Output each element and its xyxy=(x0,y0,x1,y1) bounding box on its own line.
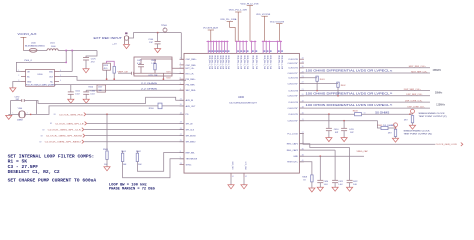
svg-text:IO: IO xyxy=(40,142,42,144)
svg-text:C540: C540 xyxy=(148,39,154,41)
svg-text:100 OHMS DIFFERENTIAL LVDS OR: 100 OHMS DIFFERENTIAL LVDS OR LVPECL xyxy=(306,104,391,107)
junction xyxy=(106,78,108,80)
svg-text:EXT_LF-: EXT_LF- xyxy=(186,73,195,75)
resistor R404 xyxy=(410,113,413,115)
ground xyxy=(241,185,247,189)
svg-text:PRI_REF+: PRI_REF+ xyxy=(186,79,197,81)
ground xyxy=(341,138,347,142)
junction xyxy=(395,127,397,129)
resistor R408 xyxy=(311,175,313,182)
junction xyxy=(157,32,159,33)
svg-text:CLKOUT4: CLKOUT4 xyxy=(288,102,298,104)
ground xyxy=(347,187,353,191)
wire CLOCK_GEN_SPI_LE xyxy=(87,122,184,124)
svg-text:10K: 10K xyxy=(104,164,108,166)
test point TP402 xyxy=(395,127,397,128)
svg-text:L500: L500 xyxy=(31,42,36,44)
svg-text:SPI_MOSI: SPI_MOSI xyxy=(186,136,196,138)
svg-text:VDD_PLL1_1V8: VDD_PLL1_1V8 xyxy=(213,55,215,69)
capacitor C411 xyxy=(343,121,345,128)
svg-text:TEST POINT OUTPUT (P): TEST POINT OUTPUT (P) xyxy=(419,116,447,118)
svg-text:24: 24 xyxy=(180,163,182,165)
svg-text:C551: C551 xyxy=(75,91,81,93)
capacitor C410 xyxy=(328,114,330,128)
wire VDD xyxy=(59,71,72,73)
svg-text:CLOCK_GEN_SPI_MISO: CLOCK_GEN_SPI_MISO xyxy=(45,142,82,144)
wire xyxy=(106,70,108,79)
svg-text:C575: C575 xyxy=(91,58,97,60)
pin CLKOUT0 xyxy=(299,58,304,60)
svg-text:IO: IO xyxy=(54,114,56,116)
svg-text:0.1U: 0.1U xyxy=(90,94,95,96)
svg-text:VDD_PLL1_1V8: VDD_PLL1_1V8 xyxy=(255,55,257,69)
svg-text:1.7M: 1.7M xyxy=(151,63,156,65)
junction dots on power bus xyxy=(208,41,209,42)
wire filter to EXT_LF+ xyxy=(155,59,184,68)
svg-text:MGT_REF_CLK-: MGT_REF_CLK- xyxy=(411,71,427,73)
svg-text:1000: 1000 xyxy=(51,46,56,48)
svg-text:CLKOUT3: CLKOUT3 xyxy=(288,91,298,93)
wire CLKOUT1 pair - xyxy=(299,72,430,74)
junction xyxy=(65,62,67,64)
junction xyxy=(328,113,330,115)
pin CLKOUT1 xyxy=(299,67,304,69)
wire TESTOUT+ xyxy=(299,162,312,175)
svg-text:GND_PAD: GND_PAD xyxy=(231,162,234,171)
pin CLKOUT1* xyxy=(299,72,304,74)
svg-text:VDD_PLL1_1V8: VDD_PLL1_1V8 xyxy=(277,55,279,69)
svg-text:VDD_PLL_1V8A: VDD_PLL_1V8A xyxy=(220,18,237,21)
wire CLOCK_GEN_SPI_MISO xyxy=(84,141,184,143)
wire loop filter bottom xyxy=(135,72,173,74)
svg-text:PD: PD xyxy=(186,114,189,116)
wire xyxy=(362,113,411,115)
svg-text:7: 7 xyxy=(180,83,181,85)
svg-text:VDD_PLL1_1V8: VDD_PLL1_1V8 xyxy=(211,55,213,69)
ground xyxy=(104,167,110,171)
svg-text:R472: R472 xyxy=(167,77,171,79)
pin SPI_MISO xyxy=(180,141,185,143)
svg-text:C3 - 27.5PF: C3 - 27.5PF xyxy=(8,166,39,170)
svg-text:VDD_VCO2V8: VDD_VCO2V8 xyxy=(270,22,285,24)
wire xyxy=(107,61,115,66)
capacitor C471 xyxy=(131,72,133,75)
svg-text:C422: C422 xyxy=(353,181,358,183)
svg-text:VDD_PLL1_1V8: VDD_PLL1_1V8 xyxy=(208,55,210,69)
svg-text:VDD_PLL1_1V8: VDD_PLL1_1V8 xyxy=(227,55,229,69)
svg-text:VDD_PLL1_1V8: VDD_PLL1_1V8 xyxy=(243,55,245,69)
wire power bus 4 xyxy=(262,40,282,42)
svg-text:CLOCK_GEN_SPI_LE: CLOCK_GEN_SPI_LE xyxy=(55,123,84,125)
svg-text:+-1V: +-1V xyxy=(112,43,117,45)
svg-text:1: 1 xyxy=(164,28,165,30)
wire VCC drop to OE rail xyxy=(65,51,67,63)
wire xyxy=(319,156,321,180)
svg-text:PRI_REF-: PRI_REF- xyxy=(186,85,196,87)
pin PRI_REF+ xyxy=(180,78,185,80)
wire xyxy=(48,106,159,115)
pin CLKOUT5* xyxy=(299,120,304,122)
pin AUX_OUT xyxy=(180,105,185,107)
pin REG_CAP2 xyxy=(299,149,304,151)
svg-text:DSP_SER_CLK+: DSP_SER_CLK+ xyxy=(404,89,422,91)
svg-text:10K: 10K xyxy=(123,164,127,166)
svg-text:IO: IO xyxy=(50,123,52,125)
resistor R513 (DNI box) xyxy=(103,63,111,70)
resistor R502 xyxy=(136,151,138,153)
wire power bus 2 xyxy=(235,40,248,42)
pin CLKOUT4* xyxy=(299,107,304,109)
svg-text:R514: R514 xyxy=(89,87,94,89)
svg-text:BLM18AG601SN1D: BLM18AG601SN1D xyxy=(25,44,46,47)
wire xyxy=(316,81,318,90)
wire CLOCK_GEN_SPI_CLK xyxy=(84,129,184,131)
svg-text:VCC3V3_AUX: VCC3V3_AUX xyxy=(203,27,219,30)
svg-text:50 OHMS: 50 OHMS xyxy=(375,113,390,115)
IC bottom pin GND_PAD xyxy=(230,173,232,178)
svg-text:CLOCK_GEN_PDn: CLOCK_GEN_PDn xyxy=(59,114,84,116)
svg-text:R502: R502 xyxy=(136,151,142,153)
wire xyxy=(85,90,87,92)
svg-text:TESTOUT+: TESTOUT+ xyxy=(287,162,299,164)
test point TP401 xyxy=(412,113,414,114)
inductor L501 xyxy=(47,49,58,51)
IC top power pins group1 xyxy=(207,41,209,53)
svg-text:2.2 OHMS: 2.2 OHMS xyxy=(141,83,158,85)
junction xyxy=(163,78,165,80)
wire xyxy=(86,51,97,58)
svg-text:VCC3V3_AUX: VCC3V3_AUX xyxy=(18,32,37,36)
svg-text:R401: R401 xyxy=(320,79,326,81)
svg-text:AUX_IN: AUX_IN xyxy=(186,99,194,102)
wire VCC drop to VDD xyxy=(71,51,73,72)
wire CLKOUT4 single-ended xyxy=(299,113,354,115)
capacitor C475 xyxy=(140,59,142,64)
ground xyxy=(83,69,89,73)
pin SPI_CLK xyxy=(180,129,185,131)
svg-text:OE: OE xyxy=(27,71,30,73)
svg-text:R513: R513 xyxy=(104,65,109,67)
svg-text:15P: 15P xyxy=(149,42,153,44)
svg-text:C410: C410 xyxy=(334,129,340,131)
pin CLKOUT4 xyxy=(299,101,304,103)
svg-text:REG_CAP2: REG_CAP2 xyxy=(287,149,299,152)
pin TESTOUT+ xyxy=(299,161,304,163)
svg-text:CLKOUT5: CLKOUT5 xyxy=(288,114,298,116)
resistor R516 xyxy=(158,103,162,109)
svg-text:TEST POINT OUTPUT (N): TEST POINT OUTPUT (N) xyxy=(404,134,432,136)
wire power bus 3 xyxy=(250,40,256,42)
svg-text:DSP_SER_CLK-: DSP_SER_CLK- xyxy=(406,94,422,96)
resistor R515 xyxy=(113,66,115,73)
wire power bus 1 xyxy=(207,40,229,42)
svg-text:EXT_LF+: EXT_LF+ xyxy=(186,68,196,70)
svg-text:6: 6 xyxy=(180,78,181,80)
wire CLKOUT2 via R401 xyxy=(299,77,317,79)
svg-text:R408: R408 xyxy=(302,176,307,178)
svg-text:SET CHARGE PUMP CURRENT TO 600: SET CHARGE PUMP CURRENT TO 600uA xyxy=(8,179,97,183)
svg-text:TP500: TP500 xyxy=(161,25,168,27)
svg-text:25MHZ: 25MHZ xyxy=(17,120,24,122)
wire 3V3 rail xyxy=(58,50,97,52)
svg-text:MGT_REF_CLK+: MGT_REF_CLK+ xyxy=(409,66,427,68)
ground xyxy=(155,49,161,53)
wire xyxy=(337,87,339,96)
svg-text:OSC_REF+: OSC_REF+ xyxy=(186,59,198,61)
ground xyxy=(392,138,398,142)
ground xyxy=(83,99,89,103)
svg-text:SEC_REF-: SEC_REF- xyxy=(186,90,197,92)
svg-text:CLOCK_GEN_SPI_MOSI: CLOCK_GEN_SPI_MOSI xyxy=(46,136,83,138)
svg-text:SPI_MISO: SPI_MISO xyxy=(186,142,196,144)
wire loop filter top xyxy=(141,58,155,60)
pin EXT_LF- xyxy=(180,73,185,75)
pin REG_CAP1 xyxy=(299,143,304,145)
wire xyxy=(70,85,72,92)
wire filter to EXT_LF- xyxy=(172,72,184,74)
capacitor C422 xyxy=(347,179,353,181)
ground xyxy=(409,125,415,129)
svg-text:PHASE MARGIN = 72 DEG: PHASE MARGIN = 72 DEG xyxy=(109,187,155,191)
svg-text:DSP_CORE_CLK-: DSP_CORE_CLK- xyxy=(408,106,425,108)
wire oscillator GND xyxy=(13,82,21,88)
svg-text:PLL_LOCK: PLL_LOCK xyxy=(287,134,298,136)
ground xyxy=(8,114,10,115)
svg-text:SPI_CLK: SPI_CLK xyxy=(186,129,195,131)
svg-text:R4: R4 xyxy=(390,71,392,73)
pin CLKOUT0* xyxy=(299,62,304,64)
IC top power pins group2 xyxy=(236,41,238,53)
pin PLL_LOCK xyxy=(299,133,304,135)
capacitor C420 xyxy=(317,179,323,181)
svg-text:CLOCK_GEN_SPI_CLK: CLOCK_GEN_SPI_CLK xyxy=(48,130,82,132)
resistor R402 xyxy=(337,82,339,87)
wire xyxy=(37,50,47,52)
svg-text:4: 4 xyxy=(180,67,181,69)
svg-text:OUT: OUT xyxy=(49,76,54,78)
wire R502 to REF_SEL xyxy=(137,153,184,172)
svg-text:42: 42 xyxy=(245,176,247,178)
wire CLKOUT4 pair - xyxy=(299,107,430,109)
loop filter DNI box xyxy=(134,57,172,76)
svg-text:C570: C570 xyxy=(15,96,21,98)
svg-text:1.0U: 1.0U xyxy=(338,184,343,186)
svg-text:FXO-HC736R-25.0MHZ (25MHz): FXO-HC736R-25.0MHZ (25MHz) xyxy=(26,85,56,87)
svg-text:CLKOUT4*: CLKOUT4* xyxy=(287,108,298,110)
IC bottom pin VCO_GND xyxy=(243,173,245,178)
svg-text:10P: 10P xyxy=(335,132,339,134)
wire CLOCK_GEN_SPI_MOSI xyxy=(85,135,184,137)
wire OE tie high xyxy=(16,62,66,71)
svg-text:VDD_PLL1_1V8: VDD_PLL1_1V8 xyxy=(229,10,248,12)
wire REG_CAP2 xyxy=(299,149,335,151)
svg-text:32: 32 xyxy=(302,58,304,60)
wire PLL_LOCK xyxy=(299,134,435,145)
svg-text:R4: R4 xyxy=(390,105,392,107)
wire ext ref xyxy=(129,33,182,38)
junction xyxy=(320,155,322,157)
wire CLKOUT4* single-ended xyxy=(299,121,381,128)
svg-text:4.7u: 4.7u xyxy=(137,63,141,65)
svg-text:R516: R516 xyxy=(149,108,155,110)
svg-text:R471: R471 xyxy=(167,72,171,74)
junction xyxy=(65,50,67,52)
svg-text:VDD_PLL1_1V8: VDD_PLL1_1V8 xyxy=(222,55,224,69)
pin OSC_REF- xyxy=(180,64,185,66)
svg-text:1K: 1K xyxy=(303,179,306,181)
resistor R406 xyxy=(394,129,396,136)
test point TP500 xyxy=(163,28,167,32)
svg-text:R501: R501 xyxy=(121,151,127,153)
pin REF_SEL xyxy=(180,152,185,154)
wire CLKOUT3 row2 + xyxy=(299,90,430,92)
svg-text:2: 2 xyxy=(27,113,28,115)
svg-text:EXT REF INPUT: EXT REF INPUT xyxy=(94,36,123,40)
svg-text:OSC_REF-: OSC_REF- xyxy=(186,65,197,67)
pin PD xyxy=(180,113,185,115)
wire xyxy=(388,127,396,129)
connector J500 xyxy=(125,32,127,34)
svg-text:VDD_VCO1V8: VDD_VCO1V8 xyxy=(256,14,271,16)
svg-text:2: 2 xyxy=(18,75,19,77)
resistor R501 xyxy=(122,151,124,153)
svg-text:CLKOUT3*: CLKOUT3* xyxy=(287,96,298,98)
svg-text:VCO_GND: VCO_GND xyxy=(244,162,246,171)
svg-text:125MHz: 125MHz xyxy=(436,104,445,106)
wire GND pin xyxy=(299,155,364,157)
pin OSC_REF+ xyxy=(180,58,185,60)
junction xyxy=(316,90,317,91)
svg-text:50MHz: 50MHz xyxy=(435,93,443,95)
capacitor C421 xyxy=(332,179,338,181)
wire CLKOUT4 pair + xyxy=(299,101,430,103)
svg-text:NC: NC xyxy=(27,76,30,78)
pin SYNC xyxy=(180,164,185,166)
svg-text:VDD_PLL1_1V8: VDD_PLL1_1V8 xyxy=(240,55,242,69)
svg-text:REF_SEL: REF_SEL xyxy=(186,152,196,154)
resistor R405 xyxy=(381,126,388,129)
svg-text:DESELECT C1, R2, C2: DESELECT C1, R2, C2 xyxy=(8,171,61,175)
resistor R403 xyxy=(355,113,362,116)
svg-text:100: 100 xyxy=(99,90,102,92)
wire xyxy=(334,150,336,180)
pin CLKOUT2 xyxy=(299,77,304,79)
svg-text:VDD: VDD xyxy=(49,71,54,73)
svg-text:0.1U: 0.1U xyxy=(75,94,80,96)
resistor R503 xyxy=(106,114,108,151)
svg-text:5: 5 xyxy=(180,72,181,74)
svg-text:DSP_CORE_CLK+: DSP_CORE_CLK+ xyxy=(405,100,423,102)
svg-text:C421: C421 xyxy=(338,181,343,183)
capacitor C551 xyxy=(68,91,74,93)
pin AUX_IN xyxy=(180,99,185,101)
ground xyxy=(123,45,129,49)
wire CLKOUT2* via R402 xyxy=(299,82,338,84)
svg-text:SET INTERNAL LOOP FILTER COMPS: SET INTERNAL LOOP FILTER COMPS: xyxy=(8,155,95,159)
svg-text:C471: C471 xyxy=(148,75,153,77)
svg-text:1.0U: 1.0U xyxy=(324,184,329,186)
pin CLKOUT3 xyxy=(299,90,304,92)
wire xyxy=(162,73,164,79)
wire CLKOUT1 pair + xyxy=(299,67,430,69)
ground xyxy=(68,99,74,103)
svg-text:49.9: 49.9 xyxy=(104,68,108,70)
svg-text:VDD_PLL1_1V8: VDD_PLL1_1V8 xyxy=(263,55,265,69)
svg-text:VDD_PLL1_1V8: VDD_PLL1_1V8 xyxy=(224,55,226,69)
svg-text:156MHz: 156MHz xyxy=(433,70,442,72)
oscillator U500 xyxy=(26,69,55,86)
junction xyxy=(55,84,184,86)
wire xyxy=(10,101,12,115)
svg-text:3: 3 xyxy=(180,63,181,65)
svg-text:GND: GND xyxy=(293,156,298,158)
IC U400 CDCE62005 body xyxy=(184,53,299,173)
wire AUX_OUT xyxy=(162,105,184,107)
svg-text:SPI_LE: SPI_LE xyxy=(186,123,194,125)
junction xyxy=(113,78,115,80)
pin CLKOUT5 xyxy=(299,113,304,115)
ground xyxy=(317,187,323,191)
svg-text:CLKOUT2: CLKOUT2 xyxy=(288,78,298,80)
svg-text:SINGLE ENDED CLOCK: SINGLE ENDED CLOCK xyxy=(404,131,431,133)
ground xyxy=(326,138,332,142)
svg-text:VDD_PLL1_1V8: VDD_PLL1_1V8 xyxy=(269,55,271,69)
svg-text:VDD_PLL1_1V8: VDD_PLL1_1V8 xyxy=(216,55,218,69)
resistor R401 xyxy=(316,76,318,81)
svg-text:U500: U500 xyxy=(38,74,44,76)
wire xyxy=(23,50,29,52)
svg-text:10P: 10P xyxy=(350,132,354,134)
wire CLOCK_GEN_PDn xyxy=(86,113,184,115)
svg-text:Y500: Y500 xyxy=(18,108,24,110)
svg-text:TESTMODE: TESTMODE xyxy=(186,159,198,161)
svg-text:NC: NC xyxy=(50,81,53,83)
wire R501 to TESTMODE xyxy=(123,159,184,178)
svg-text:R402: R402 xyxy=(341,85,347,87)
svg-text:CLKOUT1: CLKOUT1 xyxy=(288,68,298,70)
svg-text:49.9: 49.9 xyxy=(388,132,392,134)
svg-text:VDD_PLL1_1V8: VDD_PLL1_1V8 xyxy=(266,55,268,69)
svg-text:VDD_PLL1_1V8: VDD_PLL1_1V8 xyxy=(251,55,253,69)
pin GND xyxy=(299,155,304,157)
svg-text:41: 41 xyxy=(232,176,234,178)
svg-text:CLKOUT1*: CLKOUT1* xyxy=(287,73,298,75)
svg-text:GND: GND xyxy=(27,81,32,83)
svg-text:VDD_PLL1_1V8: VDD_PLL1_1V8 xyxy=(219,55,221,69)
capacitor C552 xyxy=(83,91,89,93)
svg-text:AUX_OUT: AUX_OUT xyxy=(186,105,197,108)
svg-text:SYNC: SYNC xyxy=(186,164,192,166)
svg-text:C552: C552 xyxy=(90,91,96,93)
pin CLKOUT2* xyxy=(299,82,304,84)
svg-text:IO: IO xyxy=(41,135,43,137)
svg-text:VDD_PLL1_1V8: VDD_PLL1_1V8 xyxy=(281,55,283,69)
svg-text:C557: C557 xyxy=(98,87,102,89)
svg-text:31: 31 xyxy=(302,61,304,63)
junction xyxy=(30,114,31,115)
wire ext ref to pin xyxy=(181,33,184,60)
ground xyxy=(10,88,16,92)
junction xyxy=(409,113,411,115)
junction xyxy=(343,120,345,122)
svg-text:REG_CAP1: REG_CAP1 xyxy=(287,143,299,146)
svg-text:10K: 10K xyxy=(138,164,142,166)
wire VREF_CM to filter xyxy=(118,72,131,74)
pin SPI_LE xyxy=(180,122,185,124)
svg-text:CLOCK_GEN_LOCK: CLOCK_GEN_LOCK xyxy=(436,144,458,146)
svg-text:Y500_O: Y500_O xyxy=(24,60,32,62)
svg-text:CLKOUT2*: CLKOUT2* xyxy=(287,83,298,85)
